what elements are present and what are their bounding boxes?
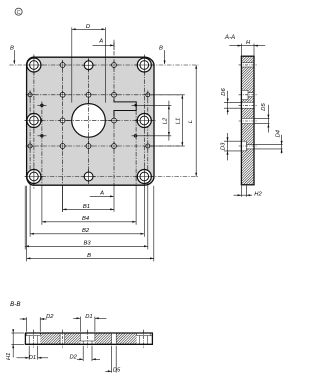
svg-text:D2: D2 <box>46 314 54 320</box>
svg-text:B-B: B-B <box>10 301 20 308</box>
svg-text:D1: D1 <box>29 355 36 361</box>
svg-text:A: A <box>98 39 103 45</box>
section B-B hole boundary lines <box>26 333 28 336</box>
centerline col point left (B4 ext) <box>41 102 43 186</box>
svg-text:A-A: A-A <box>224 34 235 41</box>
small hole r4c3 <box>86 144 91 149</box>
svg-text:D4: D4 <box>275 130 281 137</box>
small hole r2c2 <box>60 92 65 97</box>
section B-B hatched body <box>40 333 60 344</box>
svg-text:L1: L1 <box>175 118 181 124</box>
small hole r4 edge-left <box>28 144 32 148</box>
counterbore hole bottom-left <box>27 170 41 184</box>
counterbore hole mid-left <box>27 114 41 128</box>
point hole upper-left <box>41 104 44 107</box>
svg-text:B2: B2 <box>82 228 90 234</box>
point hole lower-right <box>134 135 137 138</box>
small hole r2 edge-left <box>28 93 32 97</box>
counterbore hole top-right <box>137 58 151 72</box>
section A-A hatched body <box>241 56 254 63</box>
centerline point row bottom left <box>37 135 46 137</box>
centerline row4 <box>26 145 185 147</box>
section A-A outline <box>240 56 242 185</box>
section B-B outline <box>24 333 26 344</box>
centerline row2 <box>26 94 185 96</box>
point hole lower-left <box>41 135 44 138</box>
svg-text:B4: B4 <box>82 216 89 222</box>
svg-text:B3: B3 <box>83 241 91 247</box>
counterbore hole top-left <box>27 58 41 72</box>
cut line A-A lower <box>113 116 115 185</box>
svg-text:B: B <box>10 45 14 51</box>
extension line plate right edge <box>153 186 155 262</box>
centerline col edge left (B2 ext) <box>29 91 31 186</box>
svg-text:B: B <box>159 45 163 51</box>
centerline point row top right (L2 ext) <box>132 104 172 106</box>
small hole r4 edge-right <box>146 144 150 148</box>
centerline row bottom <box>25 176 198 178</box>
svg-text:C: C <box>17 10 21 16</box>
centerline point row top left <box>37 104 46 106</box>
small hole r4c2 <box>60 144 65 149</box>
centerline col point right (B4 ext) <box>135 111 137 186</box>
small hole r4c4 <box>112 144 117 149</box>
svg-text:D2: D2 <box>69 355 77 361</box>
centerline col CB right <box>143 55 145 186</box>
svg-text:B: B <box>87 253 91 259</box>
small hole r3c4 <box>112 118 117 123</box>
extension line B3 left <box>24 186 26 250</box>
centerline col center <box>88 59 90 184</box>
centerline col small left <box>62 60 64 185</box>
svg-text:L: L <box>188 120 194 123</box>
centerline row middle <box>25 120 156 122</box>
small hole r1c2 <box>60 63 65 68</box>
center bore <box>72 104 106 138</box>
counterbore hole mid-right <box>137 114 151 128</box>
svg-text:B1: B1 <box>83 204 90 210</box>
centerline col edge right (B3 ext) <box>147 91 149 186</box>
svg-text:D6: D6 <box>221 88 227 96</box>
medium hole bottom <box>84 172 93 181</box>
small hole r1c4 <box>112 63 117 68</box>
small hole r2c4 <box>112 92 117 97</box>
svg-text:H2: H2 <box>254 192 262 198</box>
section B-B centerlines <box>32 330 34 348</box>
section A-A hole boundary lines <box>241 62 254 64</box>
centerline row top (B-B cut line) <box>9 64 198 66</box>
copyright symbol <box>15 8 22 15</box>
medium hole top <box>84 61 93 70</box>
extension line col2 below <box>62 186 64 212</box>
counterbore hole bottom-right <box>137 170 151 184</box>
svg-text:D5: D5 <box>261 103 267 111</box>
extension line plate left edge <box>26 186 28 262</box>
centerline point row bottom right (L2 ext) <box>132 135 172 137</box>
small hole r2 edge-right <box>146 93 150 97</box>
small hole r2c3 <box>86 92 91 97</box>
small hole r3c2 <box>60 118 65 123</box>
svg-text:H1: H1 <box>6 353 12 360</box>
point hole upper-right <box>134 104 137 107</box>
centerline col CB left <box>33 55 35 189</box>
svg-text:D3: D3 <box>220 142 226 150</box>
svg-text:D5: D5 <box>113 368 121 374</box>
plate outline <box>27 57 154 185</box>
svg-text:L2: L2 <box>163 117 169 124</box>
svg-text:A: A <box>99 191 104 197</box>
cut line A-A upper <box>113 43 115 100</box>
section A-A centerline ticks <box>239 64 257 66</box>
svg-text:D1: D1 <box>85 314 92 320</box>
cut line A-A jog <box>114 99 136 116</box>
